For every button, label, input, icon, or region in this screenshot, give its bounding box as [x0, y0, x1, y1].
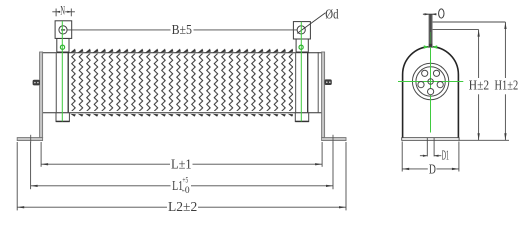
- svg-text:L2±2: L2±2: [168, 199, 197, 214]
- left green centerline: [61, 21, 63, 121]
- left mounting foot: [17, 138, 42, 141]
- svg-text:B±5: B±5: [172, 22, 193, 37]
- svg-text:N: N: [60, 3, 65, 17]
- right terminal screw: [324, 79, 331, 85]
- winding bottom turns: [70, 114, 293, 117]
- right foot hole tick: [332, 135, 334, 143]
- right clamp strap over tube: [295, 53, 308, 112]
- svg-text:Ød: Ød: [325, 7, 338, 22]
- right green centerline: [300, 22, 302, 122]
- left terminal hole: [59, 26, 67, 34]
- right terminal neck: [296, 39, 308, 52]
- terminal stem: [428, 14, 432, 47]
- winding (zigzag hatch): [70, 54, 293, 111]
- label O (ellipse zero): [439, 9, 444, 18]
- dimension D1 arrows: [420, 155, 427, 157]
- green stem arrows: [424, 45, 429, 48]
- svg-text:+5: +5: [182, 176, 188, 185]
- core holes (5): [437, 82, 443, 88]
- dimension L1 extension lines: [30, 142, 32, 189]
- left foot hole tick: [30, 135, 32, 143]
- right terminal hole: [297, 26, 305, 34]
- dimension B±5 line: [63, 29, 171, 31]
- D1 extension lines: [426, 138, 428, 157]
- tube end inner circle: [416, 67, 445, 96]
- dimension H±2 line: [478, 30, 480, 78]
- dimension L±1 line: [41, 163, 170, 165]
- left clamp tab below tube: [56, 113, 69, 122]
- resistor tube bottom edge: [42, 112, 323, 114]
- svg-text:H±2: H±2: [469, 78, 489, 93]
- dimension L2±2 line: [17, 206, 167, 208]
- dimension N: [55, 9, 57, 17]
- left end plate: [40, 52, 43, 138]
- right green dot: [299, 45, 303, 49]
- svg-text:H1±2: H1±2: [495, 78, 519, 93]
- H extension line lower: [432, 29, 478, 31]
- dimension O line at stem top: [423, 13, 437, 15]
- left terminal upper box: [55, 21, 72, 39]
- dimension L2±2 extension lines: [16, 142, 18, 210]
- dimension L±1 extension lines: [40, 142, 42, 167]
- bottom extension line: [459, 139, 509, 141]
- svg-text:-0: -0: [182, 185, 190, 195]
- svg-text:D1: D1: [442, 148, 449, 163]
- green crosshair horizontal: [398, 81, 463, 83]
- right mounting foot: [322, 138, 346, 141]
- right tube end cap line: [317, 52, 319, 113]
- leader line for Ød: [297, 13, 325, 34]
- svg-text:L±1: L±1: [171, 157, 192, 172]
- bracket dome profile: [403, 47, 459, 138]
- left terminal neck: [57, 38, 69, 52]
- stem green center: [430, 32, 432, 46]
- center hole: [428, 79, 433, 84]
- left terminal screw: [33, 80, 40, 86]
- right terminal upper box: [293, 22, 310, 39]
- dimension L1 line: [31, 185, 171, 187]
- H1 extension line upper: [432, 21, 505, 23]
- right clamp tab below tube: [295, 113, 308, 122]
- resistor tube top edge: [42, 52, 323, 54]
- green crosshair vertical: [430, 18, 432, 133]
- winding top turns: [70, 48, 293, 53]
- dimension D line: [402, 168, 428, 170]
- dimension H1±2 line: [504, 22, 506, 78]
- left clamp strap over tube: [56, 53, 69, 112]
- tube end outer circle: [412, 63, 448, 99]
- right end plate: [322, 52, 325, 138]
- D extension lines: [401, 142, 403, 172]
- left green dot: [60, 45, 64, 49]
- base strip: [402, 138, 459, 141]
- svg-text:D: D: [429, 161, 436, 176]
